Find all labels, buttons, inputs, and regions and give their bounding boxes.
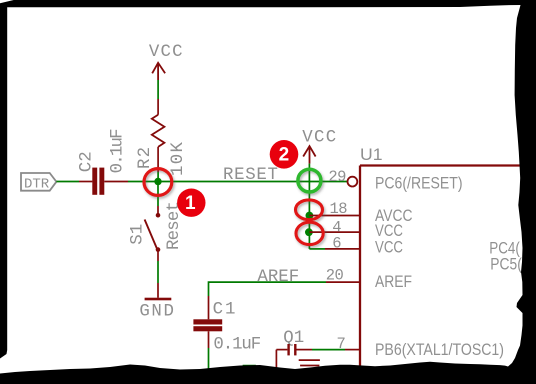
svg-text:0.1uF: 0.1uF xyxy=(213,336,260,355)
svg-text:VCC: VCC xyxy=(302,129,337,148)
svg-text:29: 29 xyxy=(328,168,346,186)
svg-text:DTR: DTR xyxy=(24,176,50,192)
svg-text:R2: R2 xyxy=(136,146,155,169)
svg-text:PB6(XTAL1/TOSC1): PB6(XTAL1/TOSC1) xyxy=(375,340,504,359)
callout 2 xyxy=(270,140,299,169)
svg-text:PC5(: PC5( xyxy=(490,255,522,274)
svg-text:0.1uF: 0.1uF xyxy=(109,129,128,174)
svg-text:10K: 10K xyxy=(169,141,188,176)
ground GND xyxy=(139,298,175,322)
wire R2 to junction xyxy=(157,172,159,182)
svg-text:6: 6 xyxy=(332,235,341,253)
pin 29 bubble PC6(/RESET) xyxy=(348,177,358,187)
svg-text:GND: GND xyxy=(139,302,175,321)
net flag DTR xyxy=(21,173,56,192)
wire pin18 xyxy=(309,215,360,217)
highlight ring VCC4 (red) xyxy=(296,222,323,244)
wire Q1 to pin7 xyxy=(312,349,345,351)
corner white wedge xyxy=(0,0,14,3)
pin C2 right xyxy=(104,181,128,183)
callout 1 xyxy=(177,189,205,217)
junction node (R2/C2/S1/RESET) xyxy=(154,178,161,185)
svg-text:1: 1 xyxy=(185,193,196,214)
highlight ring AVCC (red) xyxy=(296,200,323,220)
switch S1 xyxy=(145,206,161,261)
svg-text:2: 2 xyxy=(279,145,290,166)
resistor R2 10K xyxy=(152,99,165,172)
svg-text:RESET: RESET xyxy=(223,166,279,185)
svg-text:AREF: AREF xyxy=(257,268,299,287)
svg-text:C2: C2 xyxy=(77,151,96,172)
wire AREF xyxy=(209,282,327,296)
wire pin6 xyxy=(309,248,325,250)
op IC U1 box xyxy=(360,145,520,384)
capacitor C2 xyxy=(92,168,104,195)
junction VCC pin4 xyxy=(305,228,313,236)
svg-text:C1: C1 xyxy=(213,301,238,320)
svg-text:AREF: AREF xyxy=(375,272,412,291)
wire RESET (C2 to pin 29) xyxy=(128,181,347,183)
svg-text:20: 20 xyxy=(326,266,344,284)
wire S1 to GND xyxy=(157,261,159,283)
svg-text:VCC: VCC xyxy=(375,238,403,257)
wire VCC down across RESET to pins xyxy=(308,164,310,249)
svg-text:Q1: Q1 xyxy=(283,329,304,348)
svg-text:PC6(/RESET): PC6(/RESET) xyxy=(375,174,463,193)
pin C2 left xyxy=(79,181,92,183)
junction AVCC xyxy=(306,212,314,220)
highlight ring junction 1 (red) xyxy=(144,169,172,196)
wire pin4 xyxy=(309,231,360,233)
wire DTR to C2 (net RESET/DTR side) xyxy=(56,181,79,183)
crystal Q1 xyxy=(276,329,320,370)
power VCC (right) xyxy=(302,129,337,164)
svg-text:18: 18 xyxy=(330,200,348,218)
svg-text:VCC: VCC xyxy=(149,43,184,62)
svg-text:U1: U1 xyxy=(360,145,383,164)
wire junction to S1 xyxy=(157,182,159,207)
svg-text:7: 7 xyxy=(337,335,346,353)
highlight ring pin29 (green) xyxy=(298,169,321,192)
power VCC (left) xyxy=(149,43,184,80)
wire VCC to R2 xyxy=(157,80,159,99)
wire stub (hidden net) xyxy=(244,366,256,373)
wire C1 to (hidden) xyxy=(208,348,210,374)
svg-text:S1: S1 xyxy=(129,224,148,245)
capacitor C1 xyxy=(193,296,222,348)
